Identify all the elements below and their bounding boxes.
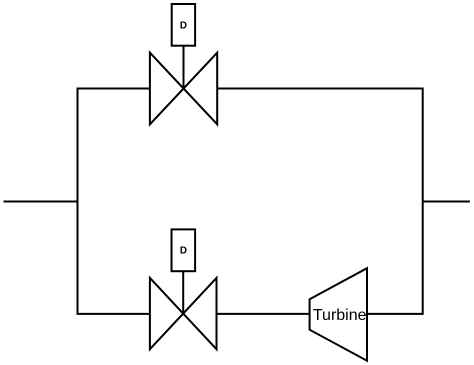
svg-text:D: D <box>180 246 187 257</box>
svg-text:Turbine: Turbine <box>313 307 367 324</box>
svg-text:D: D <box>180 20 187 31</box>
